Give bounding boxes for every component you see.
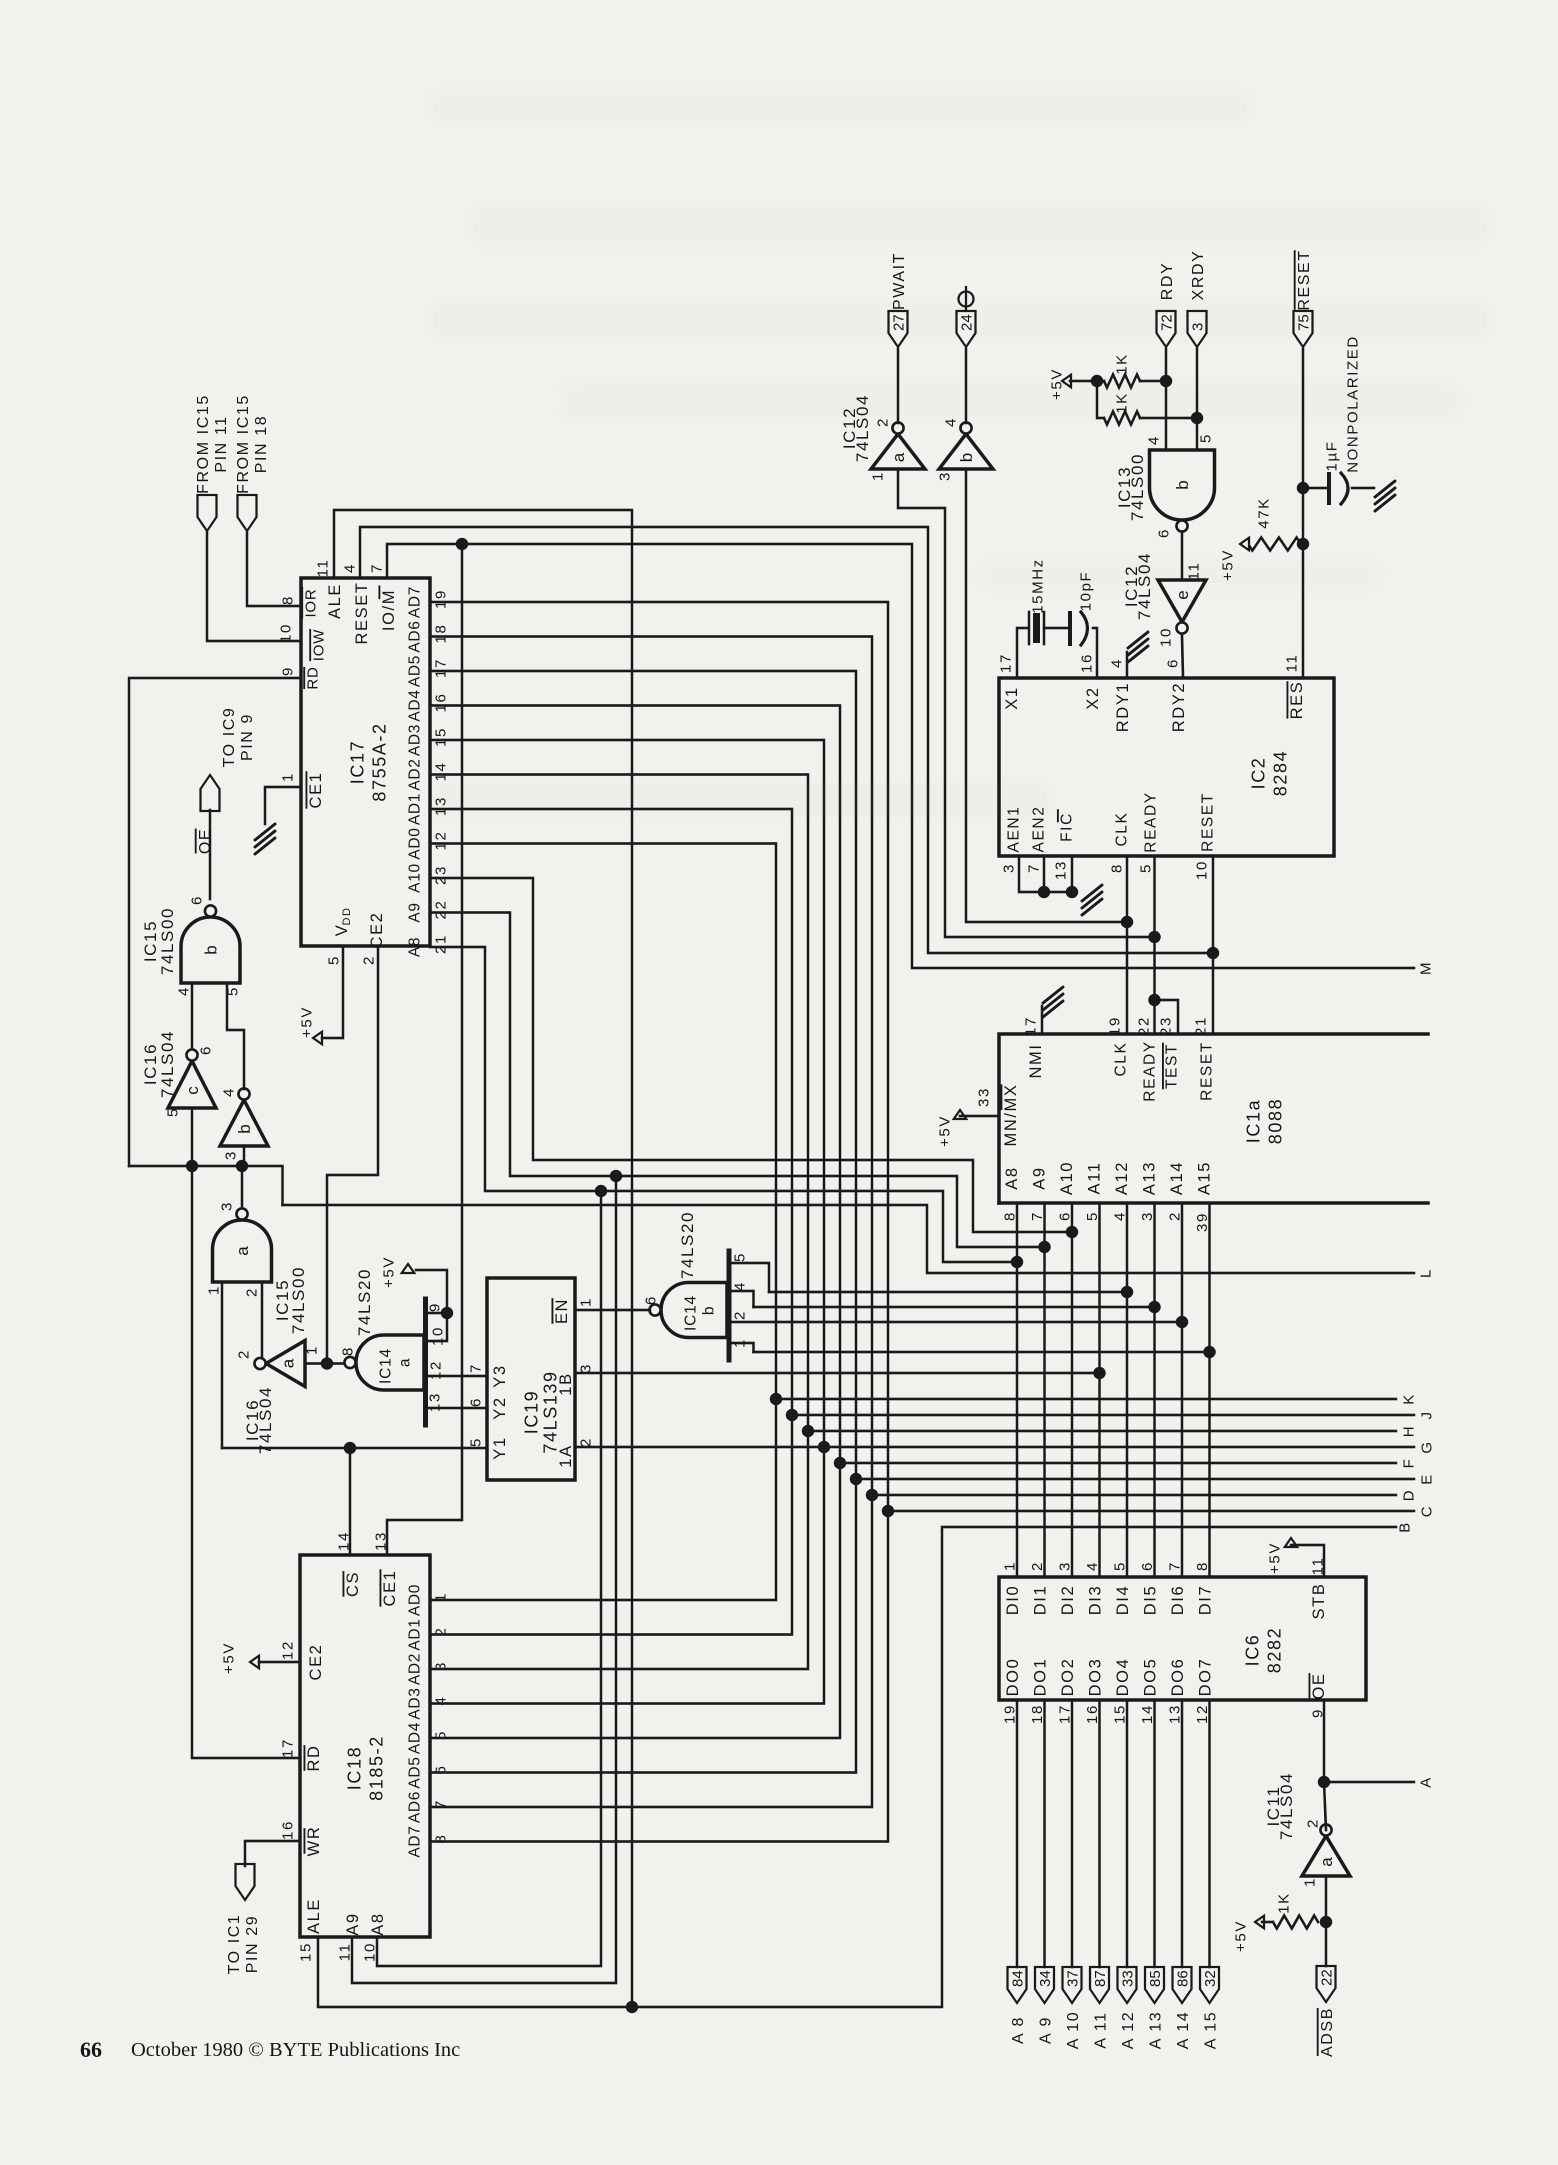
gate IC16a 74LS04 inverter xyxy=(266,1341,305,1387)
svg-text:b: b xyxy=(701,1305,718,1315)
svg-text:NMI: NMI xyxy=(1027,1043,1045,1078)
svg-text:74LS20: 74LS20 xyxy=(355,1268,374,1336)
IC U19: 74LS139 box xyxy=(487,1278,575,1480)
wire: A8 column 8088 to IC6 DI0 xyxy=(1016,1203,1019,1577)
off-page line E xyxy=(856,1478,1414,1481)
svg-text:PIN 29: PIN 29 xyxy=(244,1915,261,1974)
wire: RESET(75) flag to 8284 RES xyxy=(1302,349,1305,678)
svg-text:CE1: CE1 xyxy=(381,1570,399,1607)
svg-text:17: 17 xyxy=(1022,1016,1039,1036)
connector FROM IC15 PIN 11 xyxy=(198,495,217,531)
svg-text:3: 3 xyxy=(1000,863,1017,873)
connector ADSB pin 22 xyxy=(1317,1966,1336,2002)
bus: AD6 net (IC17 - D - IC18) xyxy=(430,637,872,1808)
svg-text:ALE: ALE xyxy=(305,1898,323,1934)
+5V supply for 47K xyxy=(1240,538,1249,551)
svg-text:75: 75 xyxy=(1296,314,1313,331)
svg-text:RES: RES xyxy=(1288,681,1306,720)
connector TO IC9 PIN 9 xyxy=(201,775,220,811)
svg-text:86: 86 xyxy=(1175,1970,1192,1987)
svg-text:A14: A14 xyxy=(1168,1161,1186,1195)
node: CE2 net at IC16a/IC14a xyxy=(321,1357,333,1369)
svg-text:A15: A15 xyxy=(1195,1161,1213,1195)
IC14a input bar xyxy=(423,1299,428,1425)
svg-text:A 8: A 8 xyxy=(1010,2016,1027,2044)
svg-text:1B: 1B xyxy=(557,1372,575,1395)
svg-text:74LS20: 74LS20 xyxy=(678,1211,697,1279)
wire: RD net leg to IC18 RD xyxy=(192,1166,300,1758)
wire: IC18 CE2 to +5V xyxy=(259,1661,300,1664)
svg-text:14: 14 xyxy=(432,762,449,782)
wire: IC6 DO7 to connector xyxy=(1208,1700,1211,1967)
svg-text:11: 11 xyxy=(1283,654,1300,673)
svg-text:FIC: FIC xyxy=(1059,812,1076,842)
svg-text:8185-2: 8185-2 xyxy=(367,1735,387,1801)
svg-text:3: 3 xyxy=(936,471,953,481)
svg-text:STB: STB xyxy=(1310,1583,1328,1620)
ground at 8284 AEN1/AEN2/FIC xyxy=(1019,856,1072,892)
off-page line H xyxy=(808,1430,1396,1433)
wire: A12 column 8088 to IC6 DI4 xyxy=(1126,1203,1129,1577)
wire: TEST jog xyxy=(1155,1000,1179,1034)
svg-text:AD1: AD1 xyxy=(407,793,424,825)
svg-text:H: H xyxy=(1400,1425,1417,1437)
svg-text:5: 5 xyxy=(731,1252,748,1262)
svg-text:b: b xyxy=(202,945,221,954)
capacitor 1uF nonpolarized xyxy=(1303,487,1327,490)
svg-text:CLK: CLK xyxy=(1113,1042,1130,1077)
ground at 8284 RDY1 xyxy=(1126,652,1129,678)
wire: IC14a pin9/10 +5V jog xyxy=(426,1312,448,1315)
bus: IO/M line to M xyxy=(387,544,1414,968)
svg-text:8: 8 xyxy=(339,1346,356,1356)
svg-text:A12: A12 xyxy=(1113,1161,1131,1195)
svg-text:10: 10 xyxy=(1193,860,1210,880)
svg-text:DO5: DO5 xyxy=(1141,1658,1159,1697)
svg-text:34: 34 xyxy=(1037,1970,1054,1987)
svg-text:AEN1: AEN1 xyxy=(1006,806,1023,853)
svg-text:1: 1 xyxy=(869,471,886,481)
IC U18: 8185-2 box xyxy=(300,1555,430,1937)
wire: RD net IC17-IC18 xyxy=(129,678,301,1166)
wire: IO/M branch down to IC18 CE1 xyxy=(387,544,462,1555)
ground at 8088 NMI xyxy=(1041,1006,1044,1034)
gate IC15b 74LS00 NAND xyxy=(181,917,240,983)
svg-text:RESET: RESET xyxy=(1200,792,1217,852)
svg-text:EN: EN xyxy=(553,1298,571,1324)
svg-text:IOR: IOR xyxy=(302,588,319,617)
connector PHI pin 24 xyxy=(957,311,976,347)
wire: IC6 DO1 to connector xyxy=(1043,1700,1046,1967)
svg-text:16: 16 xyxy=(1078,653,1095,673)
svg-text:MN/MX: MN/MX xyxy=(1002,1084,1020,1147)
svg-text:A 10: A 10 xyxy=(1065,2011,1082,2049)
svg-text:NONPOLARIZED: NONPOLARIZED xyxy=(1344,335,1361,473)
wire: IC6 DO4 to connector xyxy=(1126,1700,1129,1967)
svg-text:CLK: CLK xyxy=(1114,812,1131,847)
svg-text:DO4: DO4 xyxy=(1114,1658,1132,1697)
gate IC12a 74LS04 inverter xyxy=(871,434,925,469)
svg-text:A8: A8 xyxy=(1003,1166,1021,1189)
wire: IC16a input from CE2 net xyxy=(305,1362,344,1365)
svg-text:IC1a: IC1a xyxy=(1244,1099,1264,1143)
svg-text:DO2: DO2 xyxy=(1059,1658,1077,1697)
svg-text:1: 1 xyxy=(279,772,296,782)
connector A11 pin 87 xyxy=(1090,1967,1109,2003)
svg-text:+5V: +5V xyxy=(1232,1920,1249,1952)
wire: IC6 DO2 to connector xyxy=(1071,1700,1074,1967)
wire: IC16c output to IC15b pin4 xyxy=(191,983,194,1049)
svg-text:1: 1 xyxy=(303,1345,320,1355)
wire: IC6 DO5 to connector xyxy=(1153,1700,1156,1967)
svg-text:10: 10 xyxy=(1157,627,1174,647)
svg-text:6: 6 xyxy=(1164,658,1181,668)
svg-text:IC2: IC2 xyxy=(1249,757,1269,790)
wire: IC12e output to 8284 RDY2 xyxy=(1182,634,1183,678)
wire: IC19 1B to 8088 A11 xyxy=(575,1372,1100,1375)
svg-text:+5V: +5V xyxy=(298,1006,315,1038)
connector FROM IC15 PIN 18 xyxy=(238,495,257,531)
svg-text:A8: A8 xyxy=(407,937,424,957)
phi symbol xyxy=(959,292,974,307)
svg-text:A: A xyxy=(1417,1776,1434,1788)
svg-text:32: 32 xyxy=(1202,1970,1219,1987)
svg-text:DI0: DI0 xyxy=(1004,1585,1022,1615)
+5V supply for IC18 CE2 xyxy=(250,1656,259,1669)
wire: 8284 READY column to 8088 READY xyxy=(1153,856,1156,1034)
svg-text:18: 18 xyxy=(432,624,449,644)
svg-text:21: 21 xyxy=(432,934,449,954)
svg-text:84: 84 xyxy=(1010,1970,1027,1987)
svg-text:AEN2: AEN2 xyxy=(1031,806,1048,853)
svg-text:TO IC1: TO IC1 xyxy=(226,1914,243,1975)
bus: AD3 net (IC17 - G - IC18) xyxy=(430,740,824,1704)
svg-text:AD1: AD1 xyxy=(407,1618,424,1650)
gate IC14b 74LS20 NAND xyxy=(661,1283,727,1338)
svg-text:CE1: CE1 xyxy=(307,772,325,809)
svg-text:21: 21 xyxy=(1192,1016,1209,1036)
svg-text:24: 24 xyxy=(959,314,976,331)
bus: L line xyxy=(283,1205,1415,1273)
svg-text:2: 2 xyxy=(874,417,891,427)
svg-text:16: 16 xyxy=(432,693,449,713)
svg-text:4: 4 xyxy=(1145,435,1162,445)
wire: IC6 OE to A line and IC11 xyxy=(1323,1700,1326,1782)
wire: RDY flag to IC13b pin4 xyxy=(1165,349,1168,450)
svg-text:5: 5 xyxy=(1197,433,1214,443)
svg-text:19: 19 xyxy=(1106,1016,1123,1036)
svg-text:IO/M: IO/M xyxy=(380,589,398,631)
svg-text:FROM IC15: FROM IC15 xyxy=(195,394,212,494)
wire: IC14b pin2 to A14 line xyxy=(729,1321,1182,1324)
svg-text:RDY: RDY xyxy=(1159,262,1176,301)
svg-text:8284: 8284 xyxy=(1271,750,1291,796)
svg-text:A10: A10 xyxy=(1058,1161,1076,1195)
bus: AD1 net (IC17 - J - IC18) xyxy=(430,809,792,1635)
resistor 1K (XRDY pull-up) xyxy=(1104,412,1140,425)
svg-text:F: F xyxy=(1400,1458,1417,1469)
svg-text:DO6: DO6 xyxy=(1169,1658,1187,1697)
svg-text:7: 7 xyxy=(368,563,385,573)
node: READY/TEST tie xyxy=(1148,994,1160,1006)
svg-text:+5V: +5V xyxy=(220,1642,237,1674)
wire: IC18 A9 riser xyxy=(352,1176,616,1983)
svg-text:4: 4 xyxy=(220,1087,237,1097)
svg-text:CS: CS xyxy=(344,1571,362,1597)
svg-text:Y1: Y1 xyxy=(491,1436,509,1459)
svg-text:DI2: DI2 xyxy=(1059,1585,1077,1615)
svg-text:TEST: TEST xyxy=(1164,1043,1181,1089)
svg-text:PIN 18: PIN 18 xyxy=(253,415,270,474)
wire: IC6 DO3 to connector xyxy=(1098,1700,1101,1967)
svg-text:74LS04: 74LS04 xyxy=(1135,552,1154,620)
svg-text:17: 17 xyxy=(432,658,449,678)
svg-text:A13: A13 xyxy=(1140,1161,1158,1195)
svg-text:+5V: +5V xyxy=(1048,368,1065,400)
wire: IC14b pin4 step to A13 line xyxy=(729,1291,754,1307)
off-page line J xyxy=(792,1414,1414,1417)
svg-text:C: C xyxy=(1418,1505,1435,1517)
svg-text:DI3: DI3 xyxy=(1086,1585,1104,1615)
wire: IC11 input to 1K and ADSB flag xyxy=(1325,1876,1328,1966)
svg-text:RD: RD xyxy=(304,666,321,689)
svg-text:2: 2 xyxy=(577,1437,594,1447)
svg-text:FROM IC15: FROM IC15 xyxy=(235,394,252,494)
svg-text:RD: RD xyxy=(305,1744,323,1771)
svg-text:1K: 1K xyxy=(1113,392,1130,414)
svg-text:+5V: +5V xyxy=(1219,549,1236,581)
svg-text:DD: DD xyxy=(341,906,353,925)
wire: IC6 DO6 to connector xyxy=(1181,1700,1184,1967)
svg-text:17: 17 xyxy=(279,1738,296,1758)
svg-text:IC18: IC18 xyxy=(345,1746,365,1790)
gate IC11a 74LS04 inverter xyxy=(1302,1836,1350,1876)
svg-text:1A: 1A xyxy=(557,1444,575,1467)
svg-text:6: 6 xyxy=(642,1295,659,1305)
wire: IC18 A8 riser xyxy=(377,1191,601,1966)
svg-text:23: 23 xyxy=(432,865,449,885)
resistor 1K (RDY pull-up) xyxy=(1104,375,1140,388)
svg-text:X2: X2 xyxy=(1084,686,1102,709)
svg-text:TO IC9: TO IC9 xyxy=(221,707,238,768)
svg-text:DO3: DO3 xyxy=(1086,1658,1104,1697)
wire: IC15b output to OE flag xyxy=(209,810,212,899)
svg-text:A9: A9 xyxy=(344,1912,362,1935)
svg-text:AD4: AD4 xyxy=(407,1722,424,1754)
svg-text:DO1: DO1 xyxy=(1031,1658,1049,1697)
svg-text:RESET: RESET xyxy=(1296,249,1313,310)
wire: IC12b input from CLK row xyxy=(966,469,1127,922)
wire: IC14a pin13 to IC19 Y2 xyxy=(426,1407,488,1410)
wire: XRDY flag to IC13b pin5 xyxy=(1196,349,1199,450)
svg-text:15: 15 xyxy=(297,1942,314,1962)
svg-text:15: 15 xyxy=(432,727,449,747)
svg-text:READY: READY xyxy=(1142,1040,1159,1101)
svg-text:3: 3 xyxy=(218,1201,235,1211)
wire: IC15a output up to gate line xyxy=(241,1166,244,1206)
svg-text:13: 13 xyxy=(1052,860,1069,880)
bus: RESET line IC17 to 8284 RESET column xyxy=(360,527,1213,953)
svg-text:A 9: A 9 xyxy=(1037,2016,1054,2044)
svg-text:1: 1 xyxy=(205,1285,222,1295)
svg-text:10pF: 10pF xyxy=(1077,571,1094,612)
svg-text:CE2: CE2 xyxy=(368,912,386,949)
svg-text:2: 2 xyxy=(360,955,377,965)
svg-text:4: 4 xyxy=(341,563,358,573)
wire: IC13b output to IC12e input xyxy=(1181,532,1184,580)
svg-text:WR: WR xyxy=(305,1826,323,1857)
wire: A15 line to 8088 A15 xyxy=(754,1351,1210,1354)
ground at IC17 CE1 xyxy=(265,787,301,824)
svg-text:October 1980 © BYTE Publicatio: October 1980 © BYTE Publications Inc xyxy=(131,2039,460,2061)
connector TO IC1 PIN 29 xyxy=(236,1864,255,1900)
wire: IC14b pin1 step to A15 line xyxy=(729,1343,754,1352)
bus: AD0 net (IC17 - K - IC18) xyxy=(430,844,776,1601)
connector A12 pin 33 xyxy=(1118,1967,1137,2003)
svg-text:READY: READY xyxy=(1143,791,1160,852)
wire: IC15a pin1 to Y1 line xyxy=(221,1282,224,1448)
+5V supply for IC6 STB xyxy=(1285,1538,1298,1547)
svg-text:11: 11 xyxy=(314,559,331,578)
IC14b input bar xyxy=(727,1251,732,1360)
svg-text:AD2: AD2 xyxy=(407,1653,424,1685)
svg-text:47K: 47K xyxy=(1255,497,1272,529)
svg-text:6: 6 xyxy=(467,1397,484,1407)
svg-text:22: 22 xyxy=(1319,1969,1336,1986)
+5V supply for IC14a pins 9,10 xyxy=(402,1264,415,1273)
off-page line K xyxy=(776,1398,1396,1401)
wire: A13 column 8088 to IC6 DI5 xyxy=(1153,1203,1156,1577)
IC U6: 8282 latch box xyxy=(999,1577,1366,1700)
svg-text:3: 3 xyxy=(1190,323,1207,331)
svg-text:AD6: AD6 xyxy=(407,620,424,652)
svg-text:17: 17 xyxy=(997,653,1014,673)
svg-text:DO7: DO7 xyxy=(1196,1658,1214,1697)
svg-text:IC19: IC19 xyxy=(522,1390,542,1434)
svg-text:22: 22 xyxy=(1135,1016,1152,1036)
svg-text:74LS04: 74LS04 xyxy=(256,1386,275,1454)
svg-text:74LS00: 74LS00 xyxy=(1128,453,1147,521)
ghost print-through xyxy=(430,90,1490,820)
svg-text:5: 5 xyxy=(1137,863,1154,873)
svg-text:A9: A9 xyxy=(407,902,424,922)
wire: IC15a pin2 from IC16a output xyxy=(261,1282,264,1358)
gate IC14a 74LS20 NAND xyxy=(356,1335,424,1390)
bus: A10 net IC17 to 8088 xyxy=(430,878,1072,1232)
svg-text:AD6: AD6 xyxy=(407,1791,424,1823)
svg-text:74LS04: 74LS04 xyxy=(1277,1772,1296,1840)
svg-text:74LS04: 74LS04 xyxy=(158,1030,177,1098)
svg-text:23: 23 xyxy=(1157,1016,1174,1036)
svg-text:A9: A9 xyxy=(1030,1166,1048,1189)
wire: IC12a output to PWAIT flag xyxy=(897,349,900,423)
svg-text:A 14: A 14 xyxy=(1175,2011,1192,2049)
svg-text:22: 22 xyxy=(432,900,449,920)
off-page line G xyxy=(824,1446,1414,1449)
svg-text:33: 33 xyxy=(1120,1970,1137,1987)
wire: A10 column 8088 to IC6 DI2 xyxy=(1071,1203,1074,1577)
svg-text:2: 2 xyxy=(243,1287,260,1297)
svg-text:8: 8 xyxy=(279,595,296,605)
svg-text:AD5: AD5 xyxy=(407,1756,424,1788)
wire: IC19 EN from IC14b output xyxy=(575,1309,650,1312)
+5V supply for IC17 VDD xyxy=(313,1032,322,1045)
svg-text:RESET: RESET xyxy=(353,581,371,644)
svg-text:4: 4 xyxy=(175,986,192,996)
svg-text:A10: A10 xyxy=(407,863,424,893)
svg-text:AD4: AD4 xyxy=(407,689,424,721)
resistor 47K xyxy=(1248,538,1301,551)
svg-text:AD5: AD5 xyxy=(407,655,424,687)
svg-text:A 13: A 13 xyxy=(1147,2011,1164,2049)
wire: IC18 WR to TO IC1 flag xyxy=(245,1841,300,1866)
connector A14 pin 86 xyxy=(1173,1967,1192,2003)
svg-text:OE: OE xyxy=(1310,1672,1328,1699)
gate IC15a 74LS00 NAND xyxy=(213,1220,272,1282)
svg-text:AD7: AD7 xyxy=(407,1825,424,1857)
bus: AD4 net (IC17 - F - IC18) xyxy=(430,706,840,1739)
svg-text:A8: A8 xyxy=(369,1912,387,1935)
svg-text:9: 9 xyxy=(426,1302,443,1312)
svg-text:8755A-2: 8755A-2 xyxy=(370,722,390,801)
svg-text:b: b xyxy=(235,1124,254,1133)
svg-text:8282: 8282 xyxy=(1265,1627,1285,1673)
wire: 8284 CLK column to 8088 CLK xyxy=(1126,856,1129,1034)
connector A10 pin 37 xyxy=(1063,1967,1082,2003)
svg-text:15MHz: 15MHz xyxy=(1029,558,1046,614)
svg-text:12: 12 xyxy=(279,1640,296,1660)
+5V supply for 1K pair xyxy=(1062,375,1071,388)
svg-text:87: 87 xyxy=(1092,1970,1109,1987)
svg-text:19: 19 xyxy=(432,589,449,609)
wire: 8088 MN/MX to +5V xyxy=(960,1115,999,1118)
svg-text:IC17: IC17 xyxy=(348,740,368,784)
svg-text:6: 6 xyxy=(1155,528,1172,538)
svg-text:G: G xyxy=(1418,1440,1435,1453)
gate IC12e 74LS04 inverter xyxy=(1158,580,1206,622)
svg-text:J: J xyxy=(1418,1410,1435,1419)
svg-text:66: 66 xyxy=(80,2037,102,2062)
svg-text:L: L xyxy=(1417,1268,1434,1278)
svg-text:M: M xyxy=(1417,961,1434,975)
wire: Y1 line to IC19 xyxy=(222,1447,487,1450)
off-page line C xyxy=(888,1510,1414,1513)
wire: IC19 1A joins G line xyxy=(575,1446,824,1449)
wire: IC18 CS riser xyxy=(349,1448,352,1555)
svg-text:AD2: AD2 xyxy=(407,758,424,790)
svg-text:16: 16 xyxy=(279,1820,296,1840)
svg-text:AD0: AD0 xyxy=(407,1584,424,1616)
off-page line F xyxy=(840,1462,1396,1465)
svg-text:13: 13 xyxy=(432,796,449,816)
gate IC16c 74LS04 inverter xyxy=(168,1061,216,1108)
svg-text:DI7: DI7 xyxy=(1196,1585,1214,1615)
svg-text:6: 6 xyxy=(188,895,205,905)
svg-text:IC14: IC14 xyxy=(378,1348,395,1384)
crystal 15MHz xyxy=(1017,628,1028,678)
svg-text:1µF: 1µF xyxy=(1323,441,1340,472)
connector RESET pin 75 xyxy=(1294,311,1313,347)
wire: IC6 STB to +5V xyxy=(1291,1545,1324,1577)
bus: A9 net IC17 to 8088 xyxy=(430,913,1045,1248)
svg-text:IC6: IC6 xyxy=(1243,1634,1263,1667)
svg-text:RDY2: RDY2 xyxy=(1170,682,1188,732)
svg-text:c: c xyxy=(183,1086,202,1095)
svg-text:+5V: +5V xyxy=(936,1115,953,1147)
wire: IC17 VDD to +5V xyxy=(322,946,343,1038)
connector A13 pin 85 xyxy=(1145,1967,1164,2003)
svg-text:AD0: AD0 xyxy=(407,827,424,859)
